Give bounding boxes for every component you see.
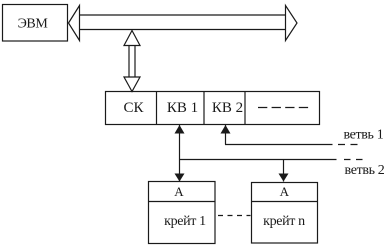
- svg-text:КВ 1: КВ 1: [167, 100, 198, 116]
- svg-text:крейт n: крейт n: [263, 214, 305, 229]
- svg-text:ветвь 2: ветвь 2: [345, 163, 385, 178]
- svg-text:крейт 1: крейт 1: [164, 214, 206, 229]
- svg-text:КВ 2: КВ 2: [212, 100, 243, 116]
- svg-text:ветвь 1: ветвь 1: [343, 127, 383, 142]
- svg-text:А: А: [280, 184, 290, 199]
- svg-text:ЭВМ: ЭВМ: [18, 16, 49, 31]
- svg-text:А: А: [174, 184, 184, 199]
- svg-text:СК: СК: [123, 100, 144, 116]
